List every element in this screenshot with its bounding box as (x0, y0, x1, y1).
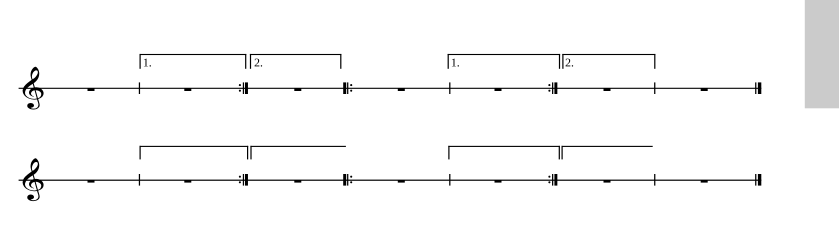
volta bracket 1b staff2 (448, 146, 560, 160)
volta bracket 2b staff1 (562, 54, 655, 69)
volta bracket 1b staff1 (448, 54, 561, 69)
whole rest m2 staff1 (184, 88, 191, 91)
whole rest m6 staff1 (604, 88, 611, 91)
whole rest m2 staff2 (184, 180, 191, 183)
end-repeat barline 1 staff2 (239, 174, 248, 186)
thin barline staff1 x139 (139, 82, 140, 94)
end-repeat barline 1 staff1 (239, 82, 248, 94)
gray panel top-right (805, 0, 839, 108)
start-repeat barline staff1 (343, 82, 352, 94)
staff line staff2 (19, 180, 762, 181)
volta bracket 1a staff1 (140, 54, 247, 69)
volta number "2." staff1 (255, 59, 263, 67)
volta bracket 2a staff2 (250, 146, 346, 160)
volta bracket 2b staff2 (562, 146, 653, 160)
thin barline staff2 x139 (139, 174, 140, 186)
volta bracket 1a staff2 (140, 146, 249, 160)
volta number "1." staff1 (452, 59, 459, 67)
whole rest m1 staff2 (88, 180, 95, 183)
whole rest m7 staff1 (701, 88, 708, 91)
thin barline staff1 x449 (449, 82, 450, 94)
final barline staff2 (755, 174, 761, 186)
end-repeat barline 2 staff2 (548, 174, 557, 186)
volta number "1." staff1 (144, 59, 151, 67)
volta bracket 2a staff1 (250, 54, 342, 69)
whole rest m3 staff1 (294, 88, 301, 91)
thin barline staff2 x449 (449, 174, 450, 186)
treble clef staff2 (23, 158, 44, 201)
staff line staff1 (19, 88, 762, 89)
whole rest m5 staff1 (495, 88, 502, 91)
treble clef staff1 (23, 67, 44, 110)
whole rest m7 staff2 (701, 180, 708, 183)
final barline staff1 (755, 82, 761, 94)
whole rest m4 staff2 (398, 180, 405, 183)
whole rest m4 staff1 (398, 88, 405, 91)
whole rest m1 staff1 (88, 88, 95, 91)
thin barline staff2 x654 (654, 174, 655, 186)
whole rest m5 staff2 (495, 180, 502, 183)
end-repeat barline 2 staff1 (548, 82, 557, 94)
whole rest m6 staff2 (604, 180, 611, 183)
thin barline staff1 x654 (654, 82, 655, 94)
start-repeat barline staff2 (343, 174, 352, 186)
volta number "2." staff1 (566, 59, 574, 67)
whole rest m3 staff2 (294, 180, 301, 183)
